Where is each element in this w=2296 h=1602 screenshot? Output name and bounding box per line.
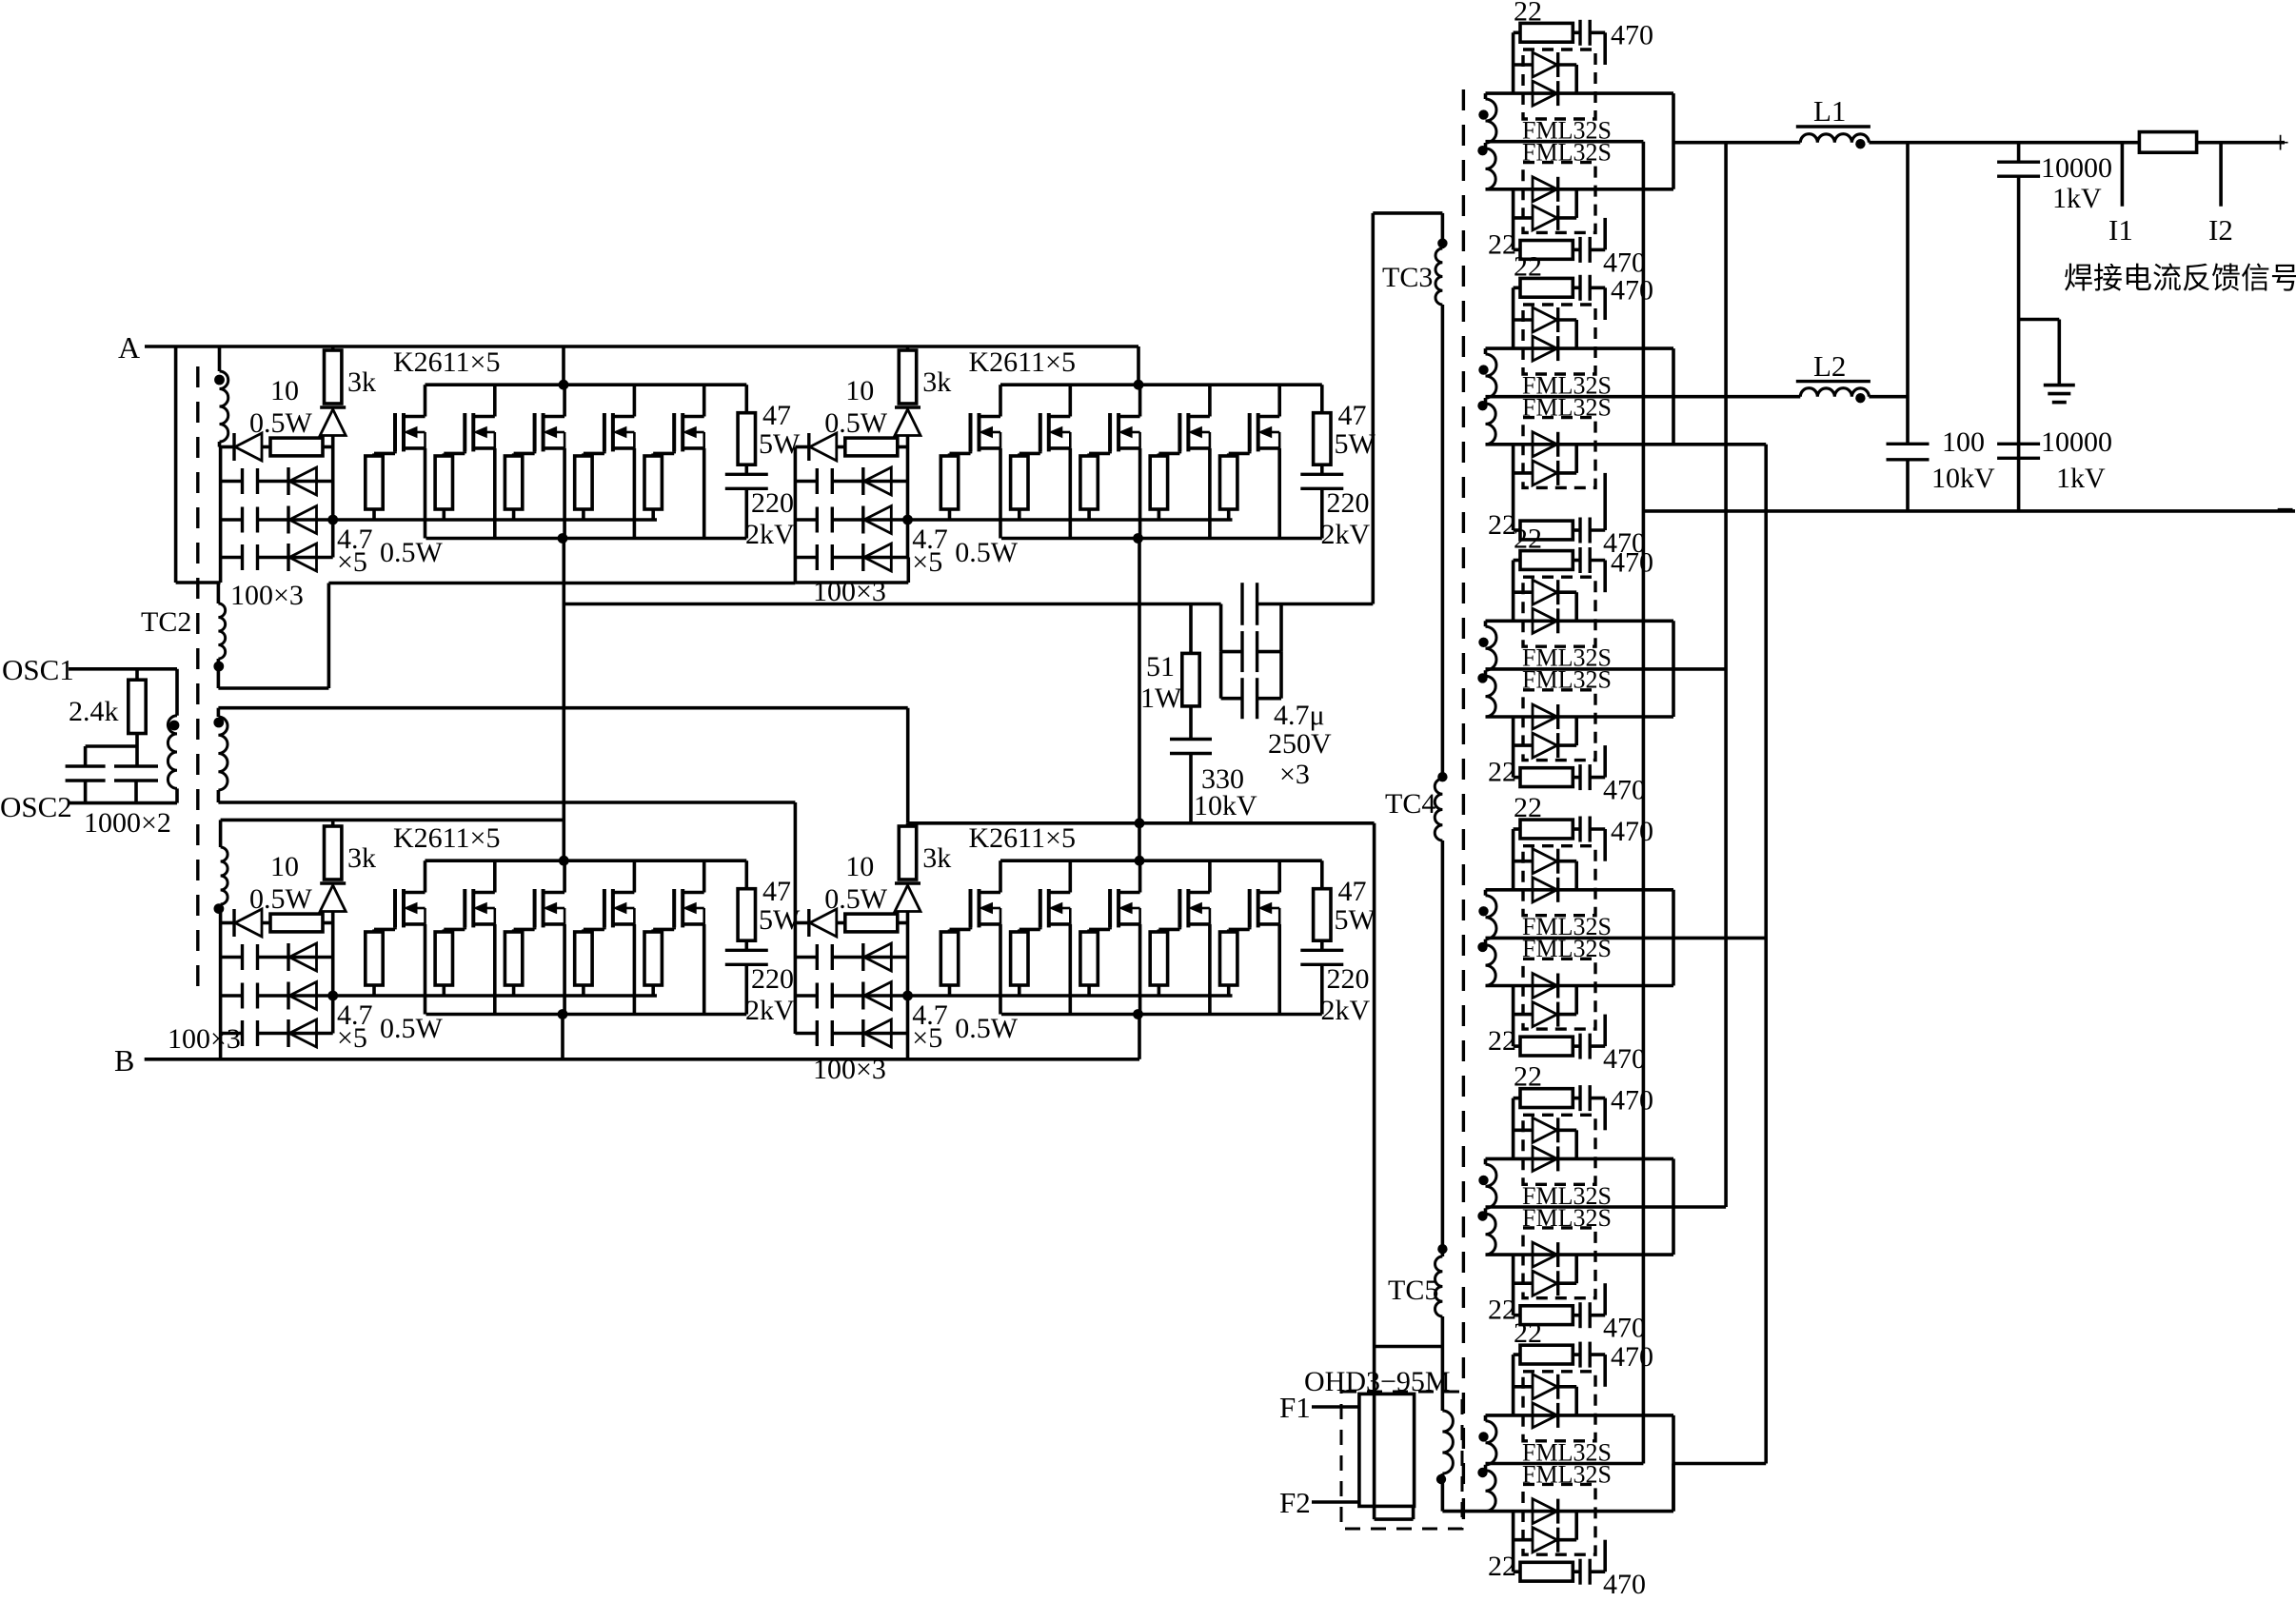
wire A bus drop to bank2 drain <box>1137 346 1140 385</box>
transistor Q1 bank2 K2611 <box>969 413 973 451</box>
winding secondary upper G6 <box>1484 1415 1488 1421</box>
wire gate lead Q2 bank3 <box>463 927 466 929</box>
svg-text:22: 22 <box>1514 0 1542 27</box>
transistor Q3 bank3 K2611 <box>533 889 537 927</box>
diode D1 G2 m1 <box>1514 318 1533 322</box>
winding secondary upper G4 <box>1484 890 1488 896</box>
wire snubber right vertical G2 m2 <box>1603 473 1607 530</box>
wire cathode stub vertical G3 m1 <box>1574 592 1578 621</box>
diode module FML32S box G6 m1 <box>1523 1372 1595 1441</box>
wire gate lead Q5 bank3 <box>672 927 676 929</box>
wire gate lead Q5 bank1 <box>672 451 676 453</box>
resistor 4.7 gate Q3 bank2 <box>1080 456 1098 509</box>
node source bus junction bank4 <box>1133 1009 1143 1019</box>
diode D2 G5 m2 <box>1514 1281 1533 1285</box>
node TC2 W1 dot <box>214 375 225 386</box>
diode module FML32S box G1 m2 <box>1523 163 1595 233</box>
diode D1 G4 m2 <box>1533 974 1557 999</box>
diode clamp rail 3 <box>287 1019 289 1047</box>
wire gate bus bank2 <box>908 518 1232 522</box>
node winding dot upper G4 <box>1478 906 1488 916</box>
wire winding top line G2 <box>1486 346 1674 350</box>
svg-text:22: 22 <box>1488 1025 1516 1057</box>
svg-text:47: 47 <box>762 400 791 431</box>
wire gate lead Q1 bank2 <box>969 451 973 453</box>
capacitor 100 rail 1 <box>241 468 244 494</box>
svg-text:10000: 10000 <box>2041 426 2112 458</box>
wire gate lead Q4 bank2 <box>1178 451 1182 453</box>
diode D1 G6 m2 <box>1533 1499 1557 1524</box>
winding secondary lower G4 <box>1486 945 1496 986</box>
wire plus rail <box>1673 141 1800 145</box>
diode D1 G1 m2 <box>1533 177 1557 202</box>
svg-text:−: − <box>2276 492 2294 527</box>
wire gate resistor lead Q4 bank1 <box>582 509 585 520</box>
wire 3k top lead bank4 <box>906 823 910 826</box>
wire gate lead Q3 bank1 <box>533 451 537 453</box>
diode D1 G3 m2 <box>1533 704 1557 729</box>
wire cathode stub vertical G1 m1 <box>1574 65 1578 93</box>
svg-text:470: 470 <box>1611 816 1653 847</box>
winding TC5 primary <box>1435 1256 1443 1316</box>
transistor Q4 bank1 K2611 <box>603 413 606 451</box>
diode module FML32S box G5 m2 <box>1523 1228 1595 1298</box>
resistor 4.7 gate Q3 bank4 <box>1080 932 1098 985</box>
svg-text:0.5W: 0.5W <box>955 1013 1019 1044</box>
wire gate lead Q3 bank2 <box>1108 451 1112 453</box>
wire snubber left vertical G6 m1 <box>1512 1355 1515 1415</box>
diode D2 G5 m1 <box>1533 1146 1557 1171</box>
wire zener to rail3 bank3 <box>331 912 335 1034</box>
svg-text:22: 22 <box>1514 1061 1542 1093</box>
resistor shunt <box>2139 132 2196 153</box>
svg-text:220: 220 <box>751 963 794 995</box>
node TC5 primary dot <box>1437 1244 1447 1254</box>
transistor Q1 bank4 K2611 <box>969 889 973 927</box>
diode module FML32S box G3 m2 <box>1523 690 1595 761</box>
transistor Q1 bank1 K2611 <box>393 413 397 451</box>
svg-text:22: 22 <box>1488 509 1516 541</box>
wire snubber left vertical G4 m1 <box>1512 829 1515 890</box>
diode clamp rail 1 <box>861 467 864 495</box>
capacitor 100 rail 3 <box>241 1020 244 1046</box>
svg-text:K2611×5: K2611×5 <box>393 346 500 378</box>
capacitor 100 rail 1 <box>816 944 819 970</box>
svg-text:100×3: 100×3 <box>813 1054 886 1085</box>
wire snubber right vertical G1 m1 <box>1603 32 1607 65</box>
wire winding bottom line G3 <box>1486 715 1674 719</box>
resistor 10 0.5W bank4 <box>845 914 898 932</box>
svg-text:22: 22 <box>1488 757 1516 788</box>
transistor Q2 bank2 K2611 <box>1039 413 1042 451</box>
diode clamp rail 3 <box>287 544 289 571</box>
resistor 47 5W bank1 <box>744 385 748 413</box>
wire TC4 to TC5 primary <box>1441 841 1445 1256</box>
wire gate lead Q3 bank4 <box>1108 927 1112 929</box>
wire snubber left vertical G5 m1 <box>1512 1098 1515 1159</box>
wire gate resistor lead Q2 bank2 <box>1018 509 1021 520</box>
wire cathode stub vertical G4 m1 <box>1574 861 1578 890</box>
capacitor 4.7u C2 <box>1219 604 1223 652</box>
wire OSC1 <box>69 667 177 671</box>
svg-text:22: 22 <box>1488 1551 1516 1582</box>
wire cathode stub vertical G6 m1 <box>1574 1387 1578 1415</box>
capacitor 470 snubber G4 upper <box>1578 817 1581 842</box>
wire gate resistor lead Q5 bank1 <box>651 509 655 520</box>
wire snubber right vertical G2 m1 <box>1603 287 1607 320</box>
transformer output core <box>1462 89 1465 1523</box>
wire F1 <box>1312 1405 1359 1409</box>
wire cap node rail <box>86 744 137 748</box>
resistor 3k bank1 <box>325 350 342 404</box>
wire gate resistor lead Q2 bank1 <box>442 509 445 520</box>
wire module output bus segment G2 <box>1672 348 1675 445</box>
svg-text:0.5W: 0.5W <box>824 883 888 915</box>
wire OHD body link <box>1373 1347 1376 1520</box>
wire center tap G6 <box>1486 1462 1644 1466</box>
svg-text:1kV: 1kV <box>2052 183 2102 214</box>
resistor 4.7 gate Q2 bank4 <box>1011 932 1028 985</box>
svg-text:470: 470 <box>1611 1085 1653 1117</box>
node bank3 drain junction <box>559 856 569 866</box>
svg-text:1000×2: 1000×2 <box>84 807 171 839</box>
resistor 4.7 gate Q5 bank2 <box>1220 456 1237 509</box>
resistor 4.7 gate Q1 bank4 <box>940 932 958 985</box>
diode clamp rail 2 <box>861 506 864 534</box>
wire G6 output bus extension <box>1672 1464 1675 1512</box>
wire TC5 bottom <box>1441 1316 1445 1347</box>
svg-text:3k: 3k <box>347 366 376 398</box>
wire leg2 mid rail <box>908 821 1375 825</box>
svg-text:F1: F1 <box>1279 1391 1311 1424</box>
resistor 22 snubber G6 upper <box>1514 1353 1520 1356</box>
diode gate drive D1 bank2 <box>795 445 808 449</box>
winding TC2 W4 to bank3 <box>219 820 223 847</box>
capacitor 100 rail 2 <box>241 983 244 1009</box>
transistor Q5 bank2 K2611 <box>1248 413 1252 451</box>
wire I2 stub <box>2219 143 2223 207</box>
wire gate resistor lead Q2 bank4 <box>1018 985 1021 996</box>
svg-text:TC3: TC3 <box>1382 262 1433 293</box>
transistor Q2 bank4 K2611 <box>1039 889 1042 927</box>
diode clamp rail 2 <box>861 982 864 1010</box>
resistor 3k bank3 <box>325 826 342 880</box>
resistor 4.7 gate Q1 bank1 <box>366 456 383 509</box>
capacitor 4.7u C3 <box>1219 652 1223 699</box>
resistor 22 snubber G1 upper <box>1514 30 1520 34</box>
svg-text:×3: ×3 <box>1279 759 1310 790</box>
resistor 22 snubber G3 lower <box>1514 776 1520 780</box>
wire cathode stub vertical G1 m2 <box>1574 189 1578 218</box>
svg-text:2kV: 2kV <box>745 995 795 1026</box>
wire gate resistor lead Q4 bank2 <box>1158 509 1161 520</box>
wire gate bus bank3 <box>333 994 657 998</box>
wire clamp rail 1 <box>221 480 243 484</box>
node leg2 mid junction <box>1135 818 1145 828</box>
node TC4 primary dot <box>1437 772 1447 781</box>
capacitor 470 snubber G2 lower <box>1578 518 1581 544</box>
resistor 22 snubber G5 lower <box>1514 1314 1520 1317</box>
wire frame right vertical bank4 <box>906 1034 910 1059</box>
diode module FML32S box G2 m1 <box>1523 305 1595 374</box>
svg-text:TC4: TC4 <box>1385 788 1435 820</box>
resistor 10 0.5W bank2 <box>845 438 898 456</box>
diode D1 G1 m1 <box>1514 63 1533 67</box>
svg-text:100: 100 <box>1942 426 1985 458</box>
wire minus collector link to G6 output bus <box>1673 1462 1766 1466</box>
wire module output bus segment G6 <box>1672 1415 1675 1512</box>
inductor L1 <box>1796 125 1870 128</box>
resistor 10 0.5W bank1 <box>270 438 323 456</box>
capacitor 100 rail 2 <box>241 507 244 533</box>
wire 3k top lead bank2 <box>906 346 910 350</box>
wire A bus <box>145 345 1138 348</box>
node winding dot lower G5 <box>1477 1211 1487 1220</box>
node gate bus junction bank3 <box>327 991 338 1001</box>
transistor Q5 bank1 K2611 <box>672 413 676 451</box>
node gate bus junction bank1 <box>327 515 338 525</box>
inductor L2 <box>1796 380 1870 383</box>
wire gate lead Q4 bank3 <box>603 927 606 929</box>
node winding dot upper G3 <box>1478 638 1488 647</box>
wire A bus to bank1 drain <box>562 346 565 385</box>
wire B bus <box>145 1058 1139 1061</box>
wire gate resistor lead Q1 bank3 <box>372 985 376 996</box>
svg-text:×5: ×5 <box>912 1022 942 1054</box>
wire snubber right vertical G4 m1 <box>1603 829 1607 861</box>
resistor 2.4k <box>135 669 139 680</box>
capacitor 220 2kV bank2 <box>1320 465 1324 474</box>
resistor 47 5W bank3 <box>744 860 748 889</box>
wire gate lead Q2 bank4 <box>1039 927 1042 929</box>
svg-text:3k: 3k <box>922 366 951 398</box>
wire TC2 W3 bottom line to bank4 frame <box>217 790 221 802</box>
node bank4 drain junction <box>1135 856 1145 866</box>
node OHD secondary dot <box>1436 1474 1446 1484</box>
svg-text:0.5W: 0.5W <box>249 883 313 915</box>
diode module FML32S box G2 m2 <box>1523 418 1595 488</box>
diode D1 G5 m2 <box>1533 1242 1557 1267</box>
svg-text:TC5: TC5 <box>1388 1275 1438 1306</box>
wire bus minus collector right <box>1764 445 1768 1464</box>
diode zener ZD bank2 <box>895 405 920 409</box>
diode clamp rail 1 <box>861 943 864 971</box>
winding TC2 W1 to bank1 <box>218 346 222 371</box>
wire snubber left vertical G2 m2 <box>1512 445 1515 530</box>
wire TC3 to TC4 primary <box>1441 305 1445 779</box>
capacitor 470 snubber G3 lower <box>1578 764 1581 790</box>
diode zener ZD bank4 <box>895 881 920 885</box>
capacitor 10000 1kV lower <box>1997 443 2040 445</box>
wire gate bus bank1 <box>333 518 657 522</box>
wire frame right vertical bank2 <box>906 558 910 583</box>
transistor Q5 bank3 K2611 <box>672 889 676 927</box>
svg-text:3k: 3k <box>922 842 951 874</box>
svg-text:K2611×5: K2611×5 <box>969 822 1076 854</box>
transistor Q3 bank2 K2611 <box>1108 413 1112 451</box>
transistor Q1 bank3 K2611 <box>393 889 397 927</box>
svg-text:焊接电流反馈信号: 焊接电流反馈信号 <box>2064 262 2296 295</box>
svg-text:10: 10 <box>845 851 874 882</box>
resistor 22 snubber G2 upper <box>1514 286 1520 289</box>
resistor 4.7 gate Q5 bank1 <box>644 456 662 509</box>
wire gate lead Q2 bank2 <box>1039 451 1042 453</box>
wire source bus bank1 <box>426 537 747 541</box>
svg-text:220: 220 <box>1327 487 1370 519</box>
winding TC2 W2 to bank2 <box>218 603 225 659</box>
wire gate resistor lead Q5 bank2 <box>1227 509 1231 520</box>
wire winding bottom line G4 <box>1486 984 1674 988</box>
capacitor 220 2kV bank1 <box>744 465 748 474</box>
node winding dot upper G5 <box>1478 1176 1488 1185</box>
winding secondary lower G5 <box>1486 1214 1496 1255</box>
svg-text:22: 22 <box>1514 524 1542 555</box>
node winding dot lower G4 <box>1477 942 1487 952</box>
diode D2 G2 m2 <box>1514 471 1533 475</box>
node TC2 W3 dot <box>213 718 224 728</box>
svg-text:+: + <box>2271 126 2289 161</box>
wire cathode stub vertical G2 m1 <box>1574 320 1578 348</box>
wire winding top line G3 <box>1486 619 1674 623</box>
wire gate lead Q5 bank4 <box>1248 927 1252 929</box>
diode module FML32S box G4 m1 <box>1523 846 1595 916</box>
wire gate lead Q4 bank4 <box>1178 927 1182 929</box>
capacitor 470 snubber G2 upper <box>1578 275 1581 301</box>
svg-text:TC2: TC2 <box>141 606 191 638</box>
transistor Q4 bank2 K2611 <box>1178 413 1181 451</box>
node gate bus junction bank2 <box>902 515 913 525</box>
winding secondary lower G2 <box>1486 404 1496 445</box>
diode gate drive D1 bank3 <box>221 921 234 925</box>
winding secondary lower G6 <box>1486 1471 1496 1512</box>
wire L2 junction vertical <box>1906 143 1910 445</box>
svg-text:0.5W: 0.5W <box>249 407 313 439</box>
wire snubber right vertical G6 m1 <box>1603 1355 1607 1387</box>
wire 3k top lead bank1 <box>331 346 335 350</box>
wire gate resistor lead Q5 bank3 <box>651 985 655 996</box>
wire drain bus bank3 <box>426 859 747 862</box>
svg-text:470: 470 <box>1611 547 1653 579</box>
winding TC4 primary <box>1435 779 1442 841</box>
wire clamp rail 1 <box>795 956 817 959</box>
wire center tap G3 <box>1486 667 1727 671</box>
transistor Q4 bank3 K2611 <box>603 889 606 927</box>
diode D1 G2 m2 <box>1533 432 1557 457</box>
resistor 22 snubber G4 upper <box>1514 827 1520 831</box>
resistor 4.7 gate Q4 bank3 <box>575 932 592 985</box>
wire frame left vertical bank4 <box>794 802 798 1034</box>
diode clamp rail 1 <box>287 467 289 495</box>
wire gate bus bank4 <box>908 994 1232 998</box>
wire winding bottom line G2 <box>1486 443 1767 446</box>
svg-text:1kV: 1kV <box>2056 463 2106 494</box>
capacitor 470 snubber G6 lower <box>1578 1559 1581 1585</box>
wire center tap G4 <box>1486 937 1767 940</box>
svg-text:47: 47 <box>1338 876 1367 907</box>
wire winding top line G6 <box>1486 1414 1674 1417</box>
svg-text:10: 10 <box>270 851 299 882</box>
svg-text:470: 470 <box>1611 274 1653 306</box>
ground branch <box>2019 318 2060 322</box>
resistor 51 1W <box>1189 604 1193 654</box>
svg-text:2kV: 2kV <box>1321 519 1371 550</box>
wire gate resistor lead Q1 bank4 <box>948 985 952 996</box>
resistor 4.7 gate Q4 bank2 <box>1150 456 1167 509</box>
svg-text:I1: I1 <box>2108 213 2133 247</box>
resistor 3k bank4 <box>899 826 916 880</box>
diode module FML32S box G1 m1 <box>1523 49 1595 119</box>
node TC2 primary dot <box>169 721 180 731</box>
diode clamp rail 3 <box>861 1019 864 1047</box>
wire OHD secondary bottom to rectifier bus <box>1441 1473 1445 1512</box>
diode D2 G4 m1 <box>1533 878 1557 902</box>
svg-text:OSC2: OSC2 <box>0 790 72 823</box>
capacitor 330 10kV <box>1189 706 1193 740</box>
wire module output bus segment G3 <box>1672 621 1675 717</box>
transistor Q2 bank3 K2611 <box>463 889 466 927</box>
svg-text:470: 470 <box>1611 1341 1653 1373</box>
diode D1 G3 m1 <box>1514 590 1533 594</box>
wire bus C collector <box>1724 143 1728 1207</box>
capacitor 1000 right <box>114 764 158 767</box>
capacitor 220 2kV bank4 <box>1320 940 1324 950</box>
capacitor 470 snubber G4 lower <box>1578 1034 1581 1059</box>
wire module output bus segment G5 <box>1672 1158 1675 1255</box>
capacitor 1000 left <box>66 764 106 767</box>
wire gate lead Q2 bank1 <box>463 451 466 453</box>
wire gate resistor lead Q3 bank4 <box>1087 985 1091 996</box>
wire module output bus segment G1 <box>1672 93 1675 189</box>
wire source bus bank2 <box>1001 537 1322 541</box>
wire frame bottom bank2 <box>795 581 908 584</box>
ground symbol <box>2044 384 2075 387</box>
wire snubber left vertical G6 m2 <box>1512 1512 1515 1572</box>
capacitor 470 snubber G1 upper <box>1578 20 1581 46</box>
capacitor 10000 1kV upper <box>2017 143 2021 163</box>
wire gate lead Q4 bank1 <box>603 451 606 453</box>
wire clamp rail 3 <box>221 1032 243 1036</box>
svg-text:5W: 5W <box>1335 428 1376 460</box>
capacitor 100 rail 2 <box>816 507 819 533</box>
diode module FML32S box G3 m1 <box>1523 577 1595 646</box>
capacitor 100 rail 1 <box>816 468 819 494</box>
svg-text:K2611×5: K2611×5 <box>393 822 500 854</box>
wire cathode stub vertical G2 m2 <box>1574 445 1578 473</box>
wire snubber left vertical G1 m1 <box>1512 32 1515 93</box>
wire cathode stub vertical G5 m2 <box>1574 1255 1578 1283</box>
wire zener to rail3 bank4 <box>906 912 910 1034</box>
wire snubber left vertical G2 m1 <box>1512 287 1515 348</box>
wire snubber right vertical G5 m2 <box>1603 1283 1607 1315</box>
wire plus rail after L1 <box>1869 141 2285 145</box>
svg-text:100×3: 100×3 <box>168 1023 241 1055</box>
node winding dot upper G2 <box>1478 365 1488 374</box>
transformer OHD3-95M body <box>1359 1394 1415 1506</box>
winding secondary upper G2 <box>1484 348 1488 354</box>
svg-text:470: 470 <box>1603 1313 1646 1344</box>
diode D2 G6 m1 <box>1533 1403 1557 1428</box>
resistor 4.7 gate Q4 bank4 <box>1150 932 1167 985</box>
resistor 22 snubber G5 upper <box>1514 1097 1520 1100</box>
resistor 4.7 gate Q5 bank4 <box>1220 932 1237 985</box>
wire winding bottom line G1 <box>1486 188 1674 191</box>
resistor 4.7 gate Q5 bank3 <box>644 932 662 985</box>
diode clamp rail 2 <box>287 506 289 534</box>
resistor 22 snubber G3 upper <box>1514 559 1520 563</box>
wire leg1 mid rail W4 top <box>221 819 564 822</box>
winding OHD secondary <box>1441 1347 1445 1412</box>
svg-text:0.5W: 0.5W <box>824 407 888 439</box>
